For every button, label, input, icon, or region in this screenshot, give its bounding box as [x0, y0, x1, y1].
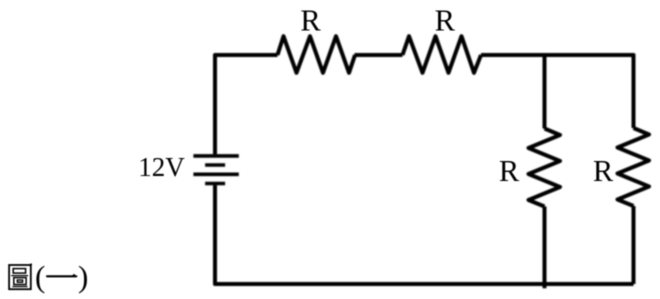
svg-text:12V: 12V — [138, 152, 185, 182]
wire top-left segment and left vertical to battery top — [215, 55, 278, 154]
glyph tu top-right serif — [30, 264, 32, 266]
resistor R1 top-left zigzag — [278, 36, 356, 73]
svg-text:R: R — [499, 154, 520, 188]
resistor R4 vertical-right zigzag — [618, 128, 650, 206]
wire left vertical below battery + bottom wire — [215, 185, 634, 284]
svg-text:R: R — [300, 4, 321, 38]
glyph tu middle horizontal — [11, 275, 28, 277]
glyph tu middle box — [14, 278, 26, 285]
glyph yi horizontal stroke — [47, 275, 76, 277]
wire from R2 to top-right corner and down right side — [481, 55, 634, 128]
battery B1 12V plate long top — [193, 154, 238, 158]
caption figure (1) : drawn glyphs — [9, 264, 77, 290]
glyph tu inner small top box — [13, 269, 25, 274]
resistor R3 vertical-left zigzag — [529, 129, 561, 207]
wire between R1 and R2 — [355, 53, 403, 57]
glyph tu bottom stroke — [12, 286, 27, 288]
wire branch vertical at node junction — [543, 55, 547, 129]
glyph tu outer box — [9, 265, 31, 289]
resistor R2 top-right zigzag — [403, 36, 482, 73]
glyph yi end serif bump — [71, 274, 76, 277]
battery B1 plate short — [205, 163, 225, 167]
battery B1 plate short bottom — [205, 182, 225, 186]
wire below R3 crossing bottom wire — [543, 207, 547, 289]
svg-text:(: ( — [35, 259, 45, 294]
svg-text:): ) — [78, 259, 88, 294]
wire below R4 to bottom-right corner — [632, 206, 636, 284]
svg-text:R: R — [435, 4, 456, 38]
svg-text:R: R — [593, 154, 614, 188]
battery B1 plate long lower — [193, 173, 238, 177]
glyph tu inner tiny box — [17, 280, 22, 282]
